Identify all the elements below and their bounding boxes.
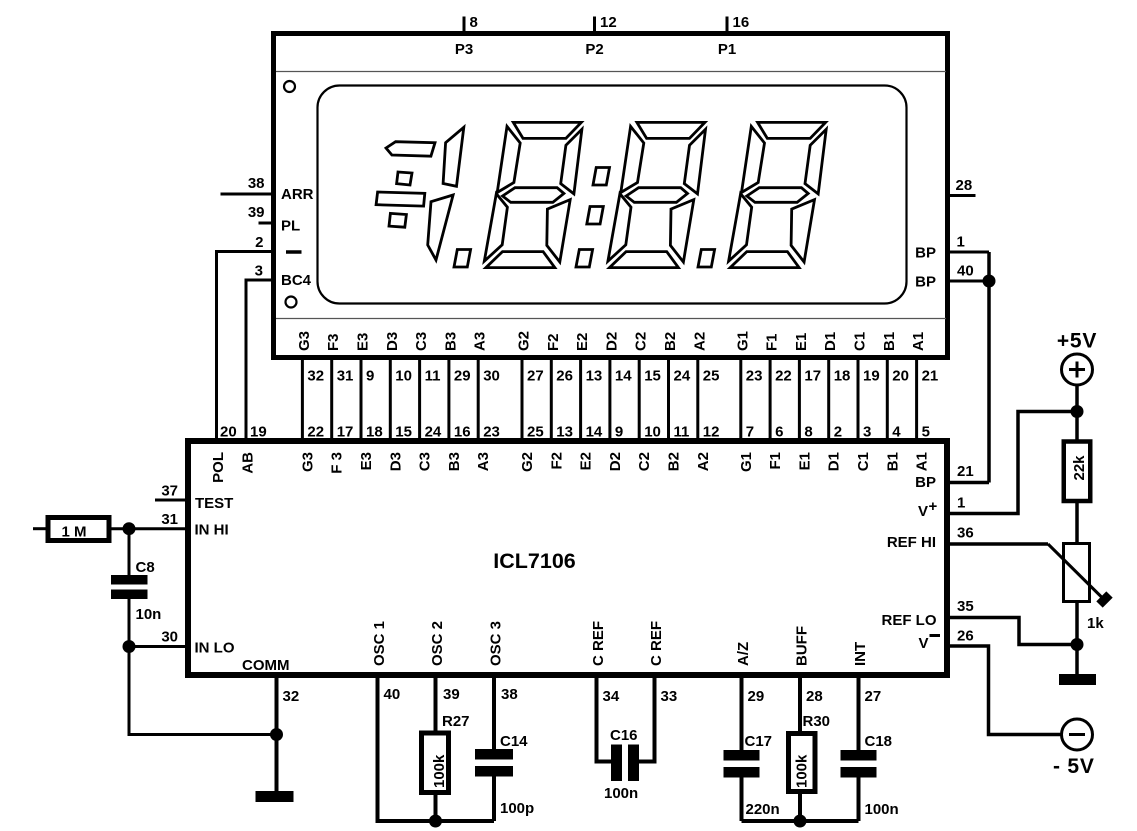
svg-text:18: 18	[834, 368, 851, 385]
svg-text:R30: R30	[803, 713, 831, 730]
wire C18 bottom to bus	[857, 777, 861, 822]
resistor 1M body	[48, 518, 109, 541]
svg-text:25: 25	[527, 424, 544, 441]
svg-text:C1: C1	[855, 452, 872, 471]
display pin 1 BP wire	[949, 251, 989, 254]
svg-text:9: 9	[615, 424, 623, 441]
svg-text:B2: B2	[662, 332, 679, 351]
LCD glass	[318, 86, 907, 304]
svg-text:2: 2	[255, 234, 263, 251]
svg-text:C14: C14	[500, 733, 528, 750]
svg-text:22: 22	[775, 368, 792, 385]
svg-text:G1: G1	[738, 452, 755, 472]
svg-text:17: 17	[337, 424, 354, 441]
svg-text:E1: E1	[796, 452, 813, 470]
svg-text:39: 39	[248, 204, 265, 221]
svg-text:AB: AB	[240, 452, 257, 474]
svg-text:32: 32	[283, 688, 300, 705]
wire segment A3 display to IC	[477, 359, 480, 441]
wire segment G2 display to IC	[521, 359, 524, 441]
svg-text:F1: F1	[764, 333, 781, 351]
svg-text:19: 19	[863, 368, 880, 385]
IC pin 37 TEST stub	[155, 499, 188, 502]
IC ICL7106 outline	[188, 441, 947, 675]
LCD digit 1 "8"	[729, 122, 827, 267]
junction oscillator bus	[429, 815, 442, 828]
display pin 39 PL stub	[259, 222, 274, 225]
svg-text:POL: POL	[210, 452, 227, 483]
svg-text:F1: F1	[767, 452, 784, 470]
wire OSC3 to C14	[492, 678, 496, 750]
wire segment F3 display to IC	[330, 359, 333, 441]
svg-text:G2: G2	[516, 331, 533, 351]
wire segment A1 display to IC	[915, 359, 918, 441]
wire segment B2 display to IC	[667, 359, 670, 441]
potentiometer 1k body	[1064, 544, 1090, 602]
wire 22k to potentiometer	[1075, 502, 1079, 543]
wire segment F2 display to IC	[550, 359, 553, 441]
wire BUFF to R30	[798, 678, 802, 733]
svg-text:E3: E3	[358, 452, 375, 470]
svg-text:7: 7	[746, 424, 754, 441]
decimal point dp1	[698, 250, 715, 268]
capacitor C18 bottom plate	[841, 767, 877, 778]
svg-text:15: 15	[395, 424, 412, 441]
wire IN LO branch to COMM	[129, 647, 277, 735]
wire R27 bottom to bus	[434, 794, 438, 821]
svg-text:B3: B3	[446, 452, 463, 471]
svg-text:F2: F2	[545, 333, 562, 351]
svg-text:D1: D1	[826, 452, 843, 471]
svg-text:C REF: C REF	[590, 621, 607, 666]
svg-text:OSC 1: OSC 1	[371, 621, 388, 666]
svg-text:38: 38	[501, 686, 518, 703]
junction integrator bus	[794, 815, 807, 828]
potentiometer wiper arrow	[1048, 544, 1102, 598]
svg-text:27: 27	[527, 368, 544, 385]
svg-text:B2: B2	[666, 452, 683, 471]
display pin 16 stub (P1)	[726, 17, 729, 34]
svg-text:21: 21	[957, 463, 974, 480]
svg-text:F 3: F 3	[329, 452, 346, 474]
wire IN LO	[129, 645, 188, 648]
svg-text:18: 18	[366, 424, 383, 441]
svg-text:100n: 100n	[604, 785, 638, 802]
svg-text:- 5V: - 5V	[1053, 755, 1095, 778]
svg-text:BUFF: BUFF	[794, 626, 811, 666]
svg-text:11: 11	[425, 368, 441, 385]
decimal point dp2	[576, 250, 593, 268]
svg-text:12: 12	[600, 14, 617, 31]
junction IN LO	[123, 640, 136, 653]
svg-text:B1: B1	[884, 452, 901, 471]
svg-text:G2: G2	[519, 452, 536, 472]
svg-text:11: 11	[674, 424, 690, 441]
display mounting hole top-left	[284, 81, 295, 92]
wire segment D1 display to IC	[827, 359, 830, 441]
wire A/Z to C17	[740, 678, 744, 751]
supply -5V	[1062, 719, 1093, 750]
colon upper square	[593, 168, 610, 186]
wire +5V to node	[1075, 385, 1079, 441]
svg-text:23: 23	[746, 368, 763, 385]
svg-text:21: 21	[922, 368, 939, 385]
capacitor C8 top plate	[111, 575, 148, 585]
svg-text:8: 8	[470, 14, 478, 31]
svg-text:16: 16	[454, 424, 471, 441]
svg-text:40: 40	[957, 263, 974, 280]
svg-text:IN HI: IN HI	[195, 522, 229, 539]
svg-text:ICL7106: ICL7106	[493, 549, 576, 573]
wire segment B3 display to IC	[447, 359, 450, 441]
svg-text:V: V	[918, 635, 928, 652]
svg-text:5: 5	[922, 424, 930, 441]
svg-text:F3: F3	[325, 333, 342, 351]
svg-text:36: 36	[957, 525, 974, 542]
wire pin34 to C16 left	[597, 678, 612, 762]
wire display pin 2 (minus) to IC pin 20	[217, 252, 274, 442]
svg-text:COMM: COMM	[242, 657, 290, 674]
svg-text:PL: PL	[281, 218, 300, 235]
svg-text:C18: C18	[865, 733, 893, 750]
svg-text:6: 6	[775, 424, 783, 441]
svg-text:+5V: +5V	[1057, 330, 1097, 353]
svg-text:A1: A1	[910, 332, 927, 351]
svg-text:A2: A2	[695, 452, 712, 471]
colon lower square	[587, 207, 604, 225]
wire OSC2 to R27	[434, 678, 438, 732]
svg-text:27: 27	[865, 688, 882, 705]
wire INT to C18	[857, 678, 861, 751]
svg-text:3: 3	[255, 263, 263, 280]
svg-text:C2: C2	[633, 332, 650, 351]
svg-text:31: 31	[337, 368, 354, 385]
svg-text:E1: E1	[793, 333, 810, 351]
LCD digit 4 "1" (segments B,C)	[428, 127, 464, 260]
svg-text:13: 13	[556, 424, 573, 441]
svg-text:C REF: C REF	[648, 621, 665, 666]
resistor 22k body	[1064, 442, 1091, 502]
svg-text:40: 40	[384, 686, 401, 703]
svg-text:C17: C17	[745, 733, 773, 750]
svg-text:REF LO: REF LO	[882, 612, 937, 629]
svg-text:30: 30	[161, 629, 178, 646]
svg-text:14: 14	[615, 368, 632, 385]
wire V- to -5V supply	[950, 646, 1062, 735]
svg-text:A3: A3	[472, 332, 489, 351]
svg-text:38: 38	[248, 175, 265, 192]
svg-text:E2: E2	[578, 452, 595, 470]
capacitor C16 left plate	[611, 745, 622, 782]
wire pot bottom to ground	[1075, 601, 1079, 676]
svg-text:25: 25	[703, 368, 720, 385]
svg-text:30: 30	[483, 368, 500, 385]
junction +5V node	[1071, 405, 1084, 418]
svg-text:39: 39	[443, 686, 460, 703]
wire to C8 top	[128, 529, 131, 576]
svg-text:C1: C1	[852, 332, 869, 351]
wire REF LO to pot bottom	[950, 618, 1077, 645]
LCD display module outline	[274, 34, 948, 358]
svg-text:29: 29	[454, 368, 471, 385]
svg-text:D1: D1	[822, 332, 839, 351]
display pin 12 stub (P2)	[593, 17, 596, 34]
svg-text:32: 32	[307, 368, 324, 385]
display mounting hole bottom-left	[286, 297, 297, 308]
svg-text:29: 29	[748, 688, 765, 705]
wire REF HI to potentiometer	[950, 542, 1048, 546]
svg-text:13: 13	[586, 368, 603, 385]
svg-text:A2: A2	[691, 332, 708, 351]
wire C8 bottom to IN LO	[128, 599, 131, 647]
svg-text:35: 35	[957, 598, 974, 615]
LCD digit 3 "8"	[484, 122, 582, 267]
svg-text:1: 1	[957, 234, 965, 251]
wire segment B1 display to IC	[886, 359, 889, 441]
IC pin 21 BP wire	[950, 481, 989, 485]
svg-text:1 M: 1 M	[61, 524, 86, 541]
capacitor C14 bottom plate	[475, 766, 513, 777]
svg-text:24: 24	[674, 368, 691, 385]
capacitor C17 bottom plate	[724, 767, 760, 778]
wire pin33 to C16 right	[639, 678, 655, 762]
junction BP net	[983, 275, 996, 288]
svg-text:4: 4	[892, 424, 901, 441]
annunciator arrow	[386, 142, 435, 157]
svg-text:G3: G3	[299, 452, 316, 472]
svg-text:BP: BP	[915, 245, 936, 262]
label minus segment	[286, 250, 302, 254]
svg-text:17: 17	[804, 368, 821, 385]
display inner top separator	[276, 71, 946, 73]
svg-text:TEST: TEST	[195, 495, 233, 512]
wire R30 bottom to bus	[798, 792, 802, 821]
svg-text:28: 28	[806, 688, 823, 705]
svg-text:10: 10	[644, 424, 661, 441]
LCD digit 2 "8"	[608, 122, 706, 267]
svg-text:INT: INT	[852, 642, 869, 666]
svg-text:100k: 100k	[794, 754, 811, 788]
svg-text:D3: D3	[384, 332, 401, 351]
svg-text:B3: B3	[442, 332, 459, 351]
svg-text:16: 16	[733, 14, 750, 31]
svg-text:100p: 100p	[500, 800, 534, 817]
svg-text:REF HI: REF HI	[887, 534, 936, 551]
svg-text:22: 22	[307, 424, 324, 441]
ground COMM	[256, 791, 294, 802]
svg-text:P2: P2	[585, 41, 603, 58]
svg-text:19: 19	[250, 424, 267, 441]
svg-text:28: 28	[956, 177, 973, 194]
svg-text:C3: C3	[417, 452, 434, 471]
svg-text:37: 37	[161, 483, 178, 500]
svg-text:100k: 100k	[431, 754, 448, 788]
svg-text:24: 24	[425, 424, 442, 441]
svg-text:E2: E2	[574, 333, 591, 351]
display pin 38 ARR stub	[221, 193, 274, 196]
svg-text:1k: 1k	[1087, 615, 1104, 632]
wire IN HI	[112, 527, 189, 530]
svg-text:P1: P1	[718, 41, 736, 58]
wire segment C2 display to IC	[638, 359, 641, 441]
wire segment G1 display to IC	[739, 359, 742, 441]
svg-text:12: 12	[703, 424, 720, 441]
svg-text:14: 14	[586, 424, 603, 441]
svg-text:BC4: BC4	[281, 272, 312, 289]
svg-text:20: 20	[220, 424, 237, 441]
display pin 8 stub (P3)	[463, 17, 466, 34]
capacitor C16 right plate	[628, 745, 639, 782]
potentiometer wiper tip	[1100, 595, 1110, 605]
wire segment A2 display to IC	[696, 359, 699, 441]
ground reference	[1059, 674, 1096, 685]
wire C17 bottom to bus	[740, 777, 744, 822]
svg-text:D2: D2	[607, 452, 624, 471]
svg-text:220n: 220n	[746, 801, 780, 818]
resistor R27 body	[422, 733, 449, 793]
resistor R30 body	[789, 734, 816, 792]
capacitor C18 top plate	[841, 750, 877, 761]
wire OSC1 to oscillator bottom bus	[378, 678, 495, 821]
svg-text:C3: C3	[413, 332, 430, 351]
svg-text:OSC 3: OSC 3	[488, 621, 505, 666]
svg-text:G3: G3	[296, 331, 313, 351]
svg-text:9: 9	[366, 368, 374, 385]
svg-text:33: 33	[661, 688, 678, 705]
wire segment F1 display to IC	[769, 359, 772, 441]
svg-text:B1: B1	[881, 332, 898, 351]
svg-text:2: 2	[834, 424, 842, 441]
svg-text:F2: F2	[548, 452, 565, 470]
display pin 40 BP wire	[949, 280, 989, 283]
capacitor C14 top plate	[475, 749, 513, 760]
svg-text:P3: P3	[455, 41, 473, 58]
svg-text:3: 3	[863, 424, 871, 441]
svg-text:BP: BP	[915, 274, 936, 291]
wire segment D3 display to IC	[389, 359, 392, 441]
wire segment G3 display to IC	[301, 359, 304, 441]
wire BP net down to IC pin 21	[987, 252, 991, 483]
svg-text:G1: G1	[734, 331, 751, 351]
integrator bottom bus	[742, 819, 859, 823]
display inner bottom separator	[276, 318, 946, 320]
svg-text:10n: 10n	[136, 606, 162, 623]
svg-text:R27: R27	[442, 713, 470, 730]
svg-text:E3: E3	[355, 333, 372, 351]
junction IN HI / C8	[123, 522, 136, 535]
svg-text:20: 20	[892, 368, 909, 385]
decimal point dp3	[454, 250, 471, 268]
wire segment D2 display to IC	[608, 359, 611, 441]
wire segment E1 display to IC	[798, 359, 801, 441]
wire segment E2 display to IC	[579, 359, 582, 441]
svg-text:C16: C16	[610, 727, 638, 744]
svg-text:+: +	[929, 498, 938, 515]
svg-text:23: 23	[483, 424, 500, 441]
wire segment C1 display to IC	[857, 359, 860, 441]
svg-text:31: 31	[161, 511, 178, 528]
svg-text:A/Z: A/Z	[735, 642, 752, 666]
svg-text:15: 15	[644, 368, 661, 385]
svg-text:A1: A1	[914, 452, 931, 471]
svg-text:BP: BP	[915, 474, 936, 491]
wire segment C3 display to IC	[418, 359, 421, 441]
svg-text:26: 26	[957, 628, 974, 645]
display pin 28 stub	[949, 194, 976, 197]
svg-text:10: 10	[395, 368, 412, 385]
svg-text:OSC 2: OSC 2	[429, 621, 446, 666]
plus/minus sign upper square	[397, 172, 412, 185]
junction COMM node	[270, 728, 283, 741]
svg-text:26: 26	[556, 368, 573, 385]
wire V+ to +5V node	[950, 412, 1077, 514]
svg-text:8: 8	[804, 424, 812, 441]
junction REF LO node	[1071, 638, 1084, 651]
svg-text:C8: C8	[136, 559, 155, 576]
wire C14 bottom to bus	[492, 777, 496, 822]
wire display pin 3 (BC4) to IC pin 19	[246, 280, 273, 441]
svg-text:22k: 22k	[1071, 455, 1088, 481]
svg-text:D2: D2	[603, 332, 620, 351]
svg-text:IN LO: IN LO	[195, 640, 235, 657]
wire COMM down to ground	[275, 678, 279, 791]
wire segment E3 display to IC	[360, 359, 363, 441]
capacitor C17 top plate	[724, 750, 760, 761]
svg-text:V: V	[918, 503, 928, 520]
svg-text:A3: A3	[475, 452, 492, 471]
svg-text:100n: 100n	[865, 801, 899, 818]
svg-text:34: 34	[603, 688, 620, 705]
input stub left of R 1M	[33, 527, 47, 530]
plus/minus sign lower square	[389, 213, 406, 227]
svg-text:1: 1	[957, 495, 965, 512]
svg-text:ARR: ARR	[281, 186, 314, 203]
svg-text:D3: D3	[387, 452, 404, 471]
capacitor C8 bottom plate	[111, 590, 148, 600]
minus sign bar	[376, 192, 425, 206]
svg-text:C2: C2	[636, 452, 653, 471]
